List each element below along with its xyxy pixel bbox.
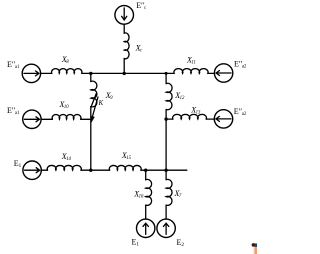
svg-text:X15: X15 [121,151,132,161]
svg-text:X9: X9 [105,91,113,101]
svg-text:X10: X10 [59,100,70,110]
svg-text:X16: X16 [133,190,144,200]
svg-text:E′′a2: E′′a2 [234,60,247,70]
svg-text:Xc: Xc [135,43,143,53]
svg-text:X11: X11 [186,56,196,66]
svg-text:X14: X14 [61,152,72,162]
svg-text:K: K [98,99,104,107]
svg-text:X7: X7 [174,189,182,199]
svg-text:E1: E1 [14,159,22,169]
svg-text:E′′a1: E′′a1 [7,60,20,70]
svg-text:E′′a2: E′′a2 [234,107,247,117]
svg-text:X12: X12 [174,91,185,101]
svg-text:E′′c: E′′c [136,1,146,11]
svg-text:E2: E2 [177,238,185,248]
svg-text:E1: E1 [132,237,140,247]
svg-text:X8: X8 [61,55,69,65]
svg-text:E′′a1: E′′a1 [7,106,20,116]
svg-text:X13: X13 [190,106,201,116]
